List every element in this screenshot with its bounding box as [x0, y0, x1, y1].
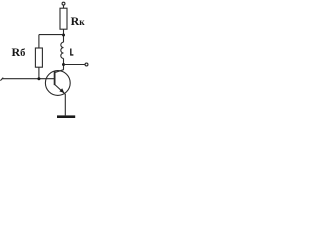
wire (to output)	[64, 64, 86, 66]
resistor Rб	[35, 48, 42, 67]
transistor base bar	[54, 71, 56, 85]
node (Rк bottom junction)	[62, 34, 65, 37]
inductor L	[61, 42, 64, 58]
transistor VT1 body	[45, 71, 70, 96]
wire	[38, 67, 40, 79]
wire (base line)	[2, 78, 54, 80]
node (collector junction)	[62, 63, 65, 66]
ground	[57, 115, 75, 118]
wire	[39, 34, 64, 36]
transistor emitter lead	[55, 84, 66, 94]
transistor emitter arrow	[59, 88, 64, 93]
wire	[63, 5, 65, 8]
terminal (input tick)	[0, 78, 3, 81]
wire	[63, 58, 65, 70]
terminal (output)	[85, 63, 88, 66]
resistor Rк	[60, 8, 67, 29]
transistor collector lead	[55, 70, 64, 73]
terminal (supply) top	[62, 2, 65, 5]
wire (emitter down)	[64, 94, 66, 115]
wire	[38, 35, 40, 48]
node (base junction)	[37, 77, 40, 80]
label L	[70, 49, 73, 56]
svg-text:Rб: Rб	[12, 45, 26, 59]
wire	[63, 29, 65, 42]
